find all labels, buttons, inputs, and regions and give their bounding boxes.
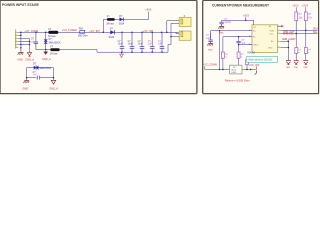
svg-text:10uF: 10uF bbox=[138, 44, 144, 46]
svg-text:600 Ohm: 600 Ohm bbox=[78, 36, 88, 38]
svg-text:1nF: 1nF bbox=[33, 75, 38, 77]
svg-text:3A fuse: 3A fuse bbox=[50, 53, 58, 56]
wire IN+ bbox=[211, 31, 252, 34]
wire port upper pin2 bbox=[171, 22, 179, 24]
capacitor C I2C col left bbox=[295, 48, 298, 54]
ground arrow 3 bbox=[303, 61, 308, 65]
wire rail into lower port pin1 bbox=[176, 32, 179, 33]
svg-text:GND: GND bbox=[22, 87, 28, 90]
wire IC GND bbox=[281, 47, 289, 49]
wire pin2 join bbox=[18, 34, 21, 36]
svg-text:SMAJ30CA: SMAJ30CA bbox=[39, 67, 51, 70]
junction dots connector columns bbox=[20, 35, 30, 49]
svg-text:GND_A: GND_A bbox=[42, 58, 51, 61]
svg-text:Slave address 1000100: Slave address 1000100 bbox=[248, 59, 273, 62]
svg-text:4: 4 bbox=[249, 43, 250, 45]
junction dots bottom rail bbox=[121, 52, 162, 53]
svg-text:GND: GND bbox=[303, 67, 308, 69]
wire vertical GND column bbox=[20, 32, 22, 52]
wire ALERT stub bbox=[278, 25, 282, 27]
svg-text:GND_A: GND_A bbox=[25, 59, 34, 62]
svg-text:IN-: IN- bbox=[253, 37, 256, 39]
junction dots shunt rail bbox=[219, 69, 251, 70]
ground GND_A arrow loop right bbox=[51, 78, 55, 85]
TVS diode D across input bbox=[44, 32, 48, 49]
svg-text:CURRENT/POWER MEASUREMENT: CURRENT/POWER MEASUREMENT bbox=[212, 3, 269, 7]
svg-text:3: 3 bbox=[249, 35, 250, 37]
svg-text:1nF: 1nF bbox=[31, 41, 36, 43]
svg-text:1: 1 bbox=[278, 25, 279, 27]
wire sense col IN+ bbox=[219, 31, 221, 70]
svg-text:VBUS: VBUS bbox=[253, 45, 259, 47]
diode D1 on rail bbox=[109, 29, 115, 39]
resistor R pullup SCL bbox=[304, 12, 307, 21]
wire main rail +VC bbox=[18, 31, 179, 33]
connector J1 bbox=[15, 29, 18, 48]
IC pin names bbox=[253, 25, 274, 49]
wire VBUS to IC bbox=[239, 44, 252, 46]
cap bank labels bbox=[118, 41, 144, 46]
svg-text:GND: GND bbox=[17, 59, 23, 62]
resistor R sense right bbox=[246, 56, 248, 60]
wire IN- bbox=[223, 36, 252, 38]
svg-text:8: 8 bbox=[278, 46, 279, 48]
capacitor C VS decoupling bbox=[219, 22, 223, 26]
wire bypass branch bbox=[103, 12, 148, 33]
svg-text:SMB_ALERT: SMB_ALERT bbox=[282, 38, 296, 41]
wires to grounds bbox=[295, 54, 297, 61]
IC U1 INA260 bbox=[252, 25, 278, 53]
svg-text:1uF: 1uF bbox=[158, 44, 163, 46]
wire VS bbox=[246, 17, 254, 25]
svg-text:n: n bbox=[298, 52, 299, 54]
svg-text:SMB_SCL: SMB_SCL bbox=[283, 34, 294, 36]
wire vertical GND_A column bbox=[29, 39, 31, 53]
junction dots main rail bbox=[20, 32, 167, 33]
junction dot port wires bbox=[170, 36, 171, 37]
resistor R sense VBUS bbox=[237, 52, 240, 58]
svg-text:4: 4 bbox=[16, 40, 17, 42]
svg-text:GND_A: GND_A bbox=[49, 87, 58, 90]
svg-text:0.005: 0.005 bbox=[231, 72, 236, 74]
hierarchical port lower bbox=[179, 31, 191, 40]
svg-text:SMAJ30CA: SMAJ30CA bbox=[49, 42, 61, 45]
shunt resistor R box bbox=[230, 65, 243, 74]
svg-text:6: 6 bbox=[278, 32, 279, 34]
capacitor bank C3..C7 bbox=[120, 32, 165, 52]
svg-text:FB?: FB? bbox=[79, 28, 84, 30]
resistor R sense IN- bbox=[221, 52, 224, 58]
svg-text:5: 5 bbox=[16, 43, 17, 45]
svg-text:SCL: SCL bbox=[313, 32, 318, 34]
wire pins 3-5 join bbox=[18, 38, 29, 40]
junction dots I2C bbox=[305, 30, 306, 31]
power flag mark bbox=[255, 71, 257, 75]
svg-text:2: 2 bbox=[249, 29, 250, 31]
capacitor C IN+ filter bbox=[208, 33, 212, 43]
ground GND_A small under TVS bbox=[44, 50, 48, 54]
wire pullup columns down bbox=[295, 21, 297, 48]
svg-text:+VC_INT: +VC_INT bbox=[249, 63, 260, 67]
TVS loop lower: wires bbox=[27, 68, 54, 78]
svg-text:GND: GND bbox=[208, 49, 213, 51]
svg-text:5: 5 bbox=[278, 29, 279, 31]
svg-text:6: 6 bbox=[16, 46, 17, 48]
shunt rail bbox=[205, 66, 257, 69]
svg-text:1nF: 1nF bbox=[206, 38, 211, 40]
svg-text:10uF: 10uF bbox=[128, 44, 134, 46]
hierarchical port upper bbox=[179, 15, 191, 27]
svg-text:100nF: 100nF bbox=[224, 22, 231, 24]
svg-text:Shunt: Shunt bbox=[231, 68, 236, 71]
wire sense col IN- upper bbox=[222, 37, 224, 52]
ground hatch VS cap bbox=[218, 26, 224, 28]
svg-text:+3V3: +3V3 bbox=[145, 8, 152, 12]
ground arrow 2 bbox=[294, 61, 299, 65]
ground GND hatch under connector bbox=[18, 52, 24, 54]
wire pullup stubs bbox=[295, 7, 297, 12]
wire return rail bbox=[36, 23, 171, 52]
svg-text:SS34: SS34 bbox=[119, 23, 125, 25]
svg-text:+VC_FUSED: +VC_FUSED bbox=[62, 28, 77, 32]
svg-text:3A fuse: 3A fuse bbox=[48, 35, 56, 38]
ground arrow 1 bbox=[286, 61, 291, 65]
svg-text:+3V3: +3V3 bbox=[292, 4, 299, 8]
LEFT SHEET FRAME bbox=[0, 1, 197, 94]
resistor R pullup SDA bbox=[295, 12, 298, 21]
capacitor C TVS filter bbox=[34, 32, 38, 49]
ground GND_A arrow under connector bbox=[27, 53, 31, 57]
svg-text:n: n bbox=[308, 52, 309, 54]
svg-text:GND: GND bbox=[294, 67, 299, 69]
wire SDA bbox=[281, 29, 318, 31]
RIGHT SHEET FRAME bbox=[203, 1, 319, 94]
diode D2 bypass bbox=[119, 16, 125, 25]
svg-text:3: 3 bbox=[16, 37, 17, 39]
svg-text:GND: GND bbox=[286, 67, 291, 69]
svg-text:SDA: SDA bbox=[313, 28, 318, 31]
capacitor C I2C col right bbox=[304, 48, 307, 54]
svg-text:GND: GND bbox=[268, 47, 273, 49]
svg-text:+VC_INT: +VC_INT bbox=[89, 29, 100, 33]
junction dot TVS bottom bbox=[45, 49, 46, 50]
fuse F1 bbox=[48, 31, 58, 34]
svg-text:7: 7 bbox=[278, 40, 279, 42]
svg-text:+VC_CONN: +VC_CONN bbox=[203, 63, 217, 67]
ferrite bead FB1 bbox=[80, 30, 85, 33]
svg-text:SDA: SDA bbox=[270, 29, 275, 32]
IC pin stubs left bbox=[249, 31, 252, 45]
svg-text:1: 1 bbox=[16, 31, 17, 33]
no-connect X ALERT bbox=[281, 25, 283, 27]
svg-text:INA260: INA260 bbox=[247, 52, 255, 55]
ground hatch IN+ cap bbox=[207, 43, 213, 45]
note box slave address bbox=[247, 56, 278, 62]
wire port upper pin1 bbox=[167, 21, 179, 33]
svg-text:+3V3: +3V3 bbox=[302, 4, 309, 8]
svg-text:POWER INPUT STAGE: POWER INPUT STAGE bbox=[2, 3, 40, 7]
svg-text:1uF: 1uF bbox=[148, 44, 153, 46]
ground arrow under cap bank bbox=[120, 52, 124, 57]
fuse F2 bypass bbox=[107, 18, 115, 21]
junction dot VS bbox=[245, 20, 246, 21]
wire VS to cap bbox=[222, 20, 246, 22]
svg-text:3A fuse: 3A fuse bbox=[106, 22, 114, 25]
ground GND hatch loop left bbox=[24, 78, 30, 83]
fuse F3 return bbox=[50, 48, 59, 51]
svg-text:10uF: 10uF bbox=[118, 44, 124, 46]
svg-text:2: 2 bbox=[16, 34, 17, 36]
IC pin stubs right bbox=[278, 26, 281, 47]
capacitor C VBUS bbox=[236, 41, 240, 42]
svg-text:SS34: SS34 bbox=[109, 37, 115, 39]
svg-text:Rshunt = 0.005 Ohm: Rshunt = 0.005 Ohm bbox=[225, 79, 251, 83]
TVS diode D bidirectional lower bbox=[34, 65, 39, 69]
wire SCL bbox=[281, 33, 318, 35]
wire VBUS col bbox=[238, 36, 239, 37]
svg-text:+3V3: +3V3 bbox=[243, 13, 250, 17]
wire port lower pin2 bbox=[171, 36, 179, 38]
junction dots loop bbox=[26, 77, 54, 78]
capacitor C loop lower bbox=[37, 76, 40, 80]
wire A0 bbox=[281, 41, 289, 60]
